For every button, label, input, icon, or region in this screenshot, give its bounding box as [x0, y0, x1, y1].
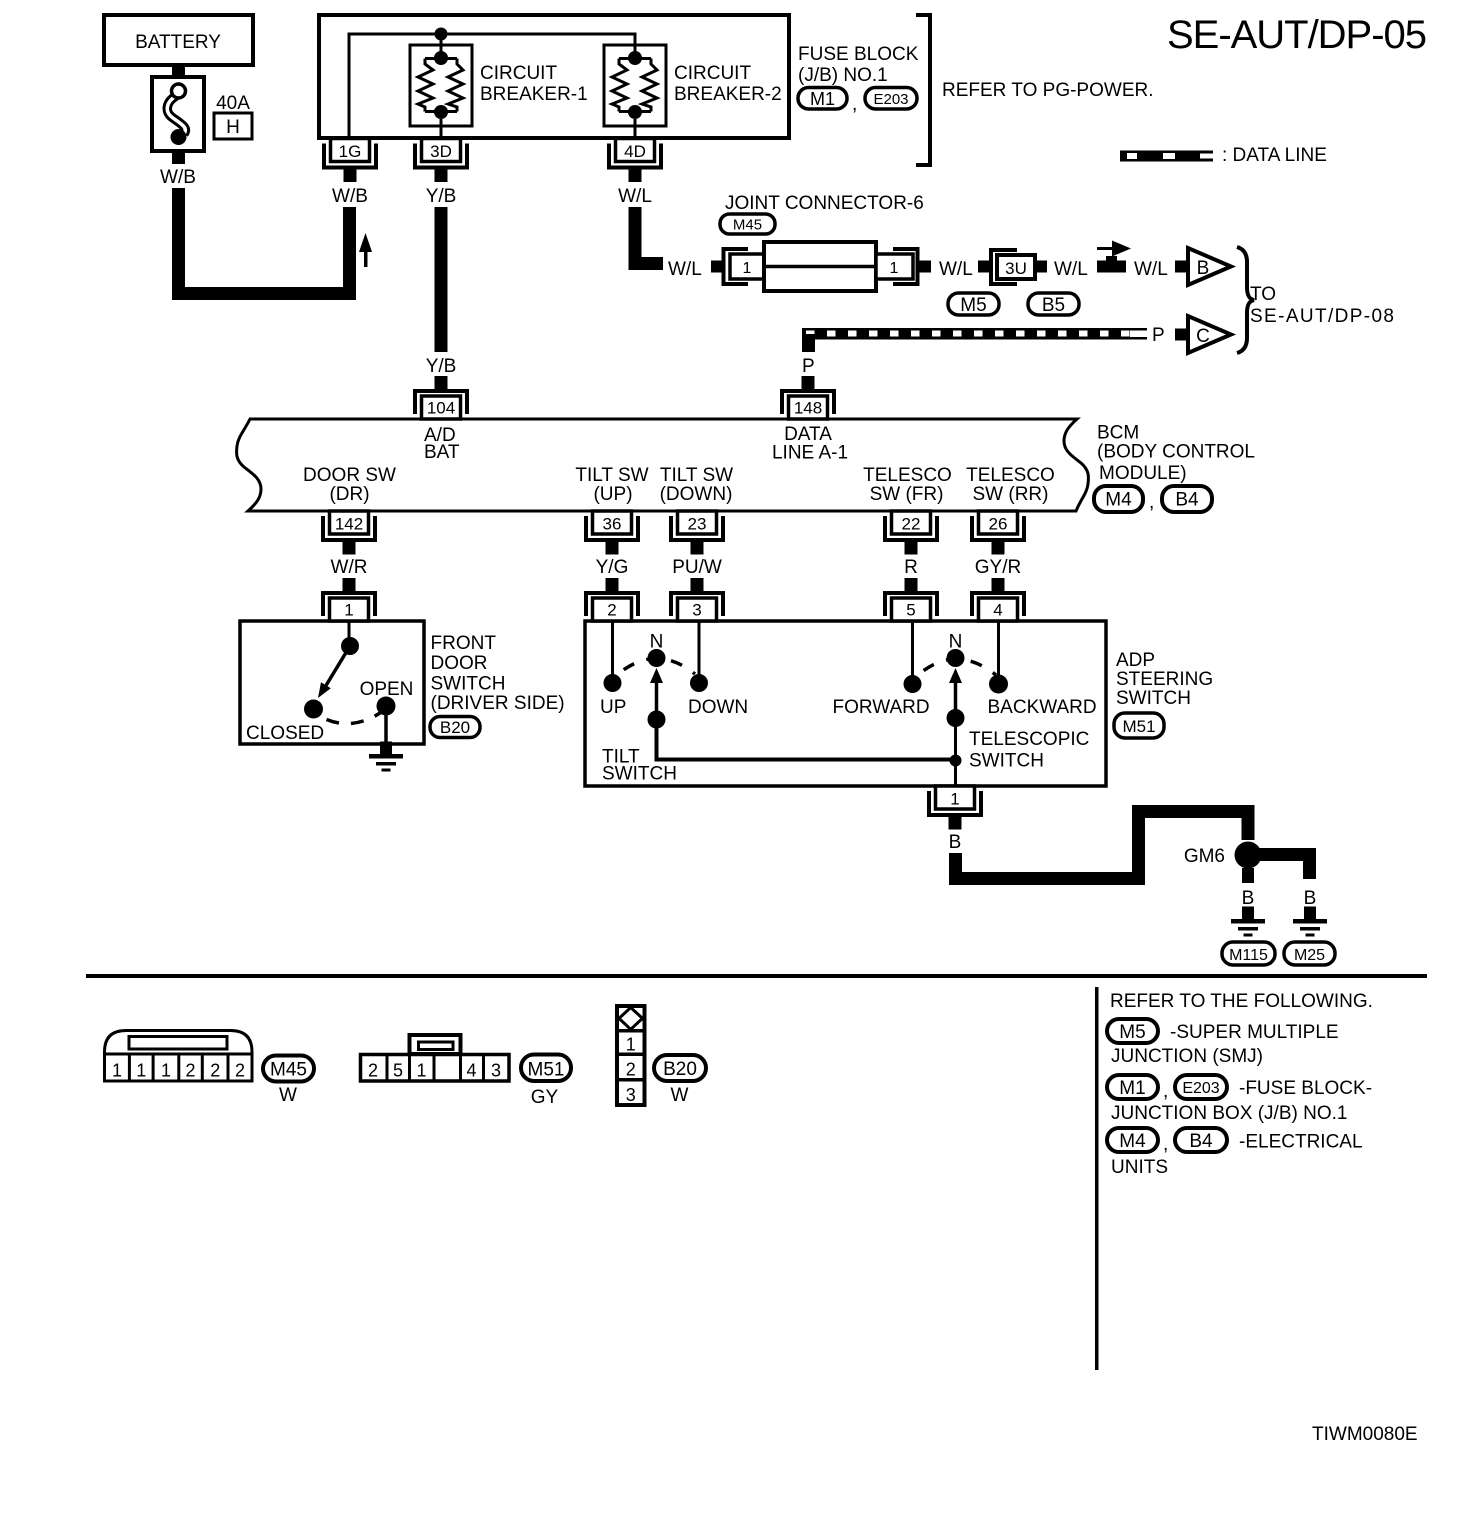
- svg-text:B4: B4: [1175, 490, 1199, 511]
- svg-text:E203: E203: [1182, 1080, 1219, 1097]
- svg-text:W/B: W/B: [332, 186, 368, 207]
- svg-text:(J/B) NO.1: (J/B) NO.1: [798, 65, 888, 86]
- svg-text:GY: GY: [531, 1087, 559, 1108]
- svg-text:5: 5: [906, 601, 915, 620]
- svg-text:W/L: W/L: [1134, 259, 1168, 280]
- svg-text:FRONT: FRONT: [431, 633, 497, 654]
- svg-text:DOOR: DOOR: [431, 653, 488, 674]
- svg-text:STEERING: STEERING: [1116, 669, 1213, 690]
- svg-text:SE-AUT/DP-05: SE-AUT/DP-05: [1167, 13, 1427, 57]
- svg-text:MODULE): MODULE): [1099, 463, 1187, 484]
- svg-text:1: 1: [950, 790, 959, 809]
- svg-text:E203: E203: [873, 91, 908, 108]
- svg-text:CLOSED: CLOSED: [246, 723, 324, 744]
- svg-text:C: C: [1196, 326, 1210, 347]
- svg-text:36: 36: [603, 515, 622, 534]
- svg-text:22: 22: [902, 515, 921, 534]
- svg-text:REFER TO THE FOLLOWING.: REFER TO THE FOLLOWING.: [1110, 991, 1373, 1012]
- svg-text:W/L: W/L: [939, 259, 973, 280]
- svg-text:M51: M51: [528, 1060, 565, 1081]
- svg-text:-SUPER MULTIPLE: -SUPER MULTIPLE: [1170, 1022, 1339, 1043]
- svg-text:,: ,: [1163, 1134, 1168, 1155]
- svg-text:,: ,: [1163, 1081, 1168, 1102]
- svg-text:SE-AUT/DP-08: SE-AUT/DP-08: [1250, 306, 1394, 327]
- svg-text:(DRIVER SIDE): (DRIVER SIDE): [431, 693, 565, 714]
- svg-text:ADP: ADP: [1116, 650, 1155, 671]
- svg-text:(BODY CONTROL: (BODY CONTROL: [1097, 442, 1255, 463]
- svg-text:M5: M5: [1119, 1022, 1145, 1043]
- svg-text:M51: M51: [1122, 717, 1155, 736]
- svg-text:W/L: W/L: [1054, 259, 1088, 280]
- svg-text:M115: M115: [1229, 947, 1268, 964]
- svg-text:W/R: W/R: [331, 557, 368, 578]
- svg-text:W/L: W/L: [618, 186, 652, 207]
- svg-text:M1: M1: [810, 89, 835, 109]
- svg-text:2: 2: [368, 1061, 378, 1081]
- svg-text:1: 1: [626, 1035, 636, 1055]
- svg-text:TIWM0080E: TIWM0080E: [1312, 1424, 1418, 1445]
- svg-text:B20: B20: [663, 1059, 697, 1080]
- svg-text:5: 5: [393, 1061, 403, 1081]
- svg-text:,: ,: [852, 94, 857, 115]
- svg-text:1: 1: [743, 260, 752, 277]
- svg-text:2: 2: [235, 1061, 245, 1081]
- svg-text:R: R: [904, 557, 918, 578]
- svg-text:W/B: W/B: [160, 167, 196, 188]
- svg-text:P: P: [802, 356, 815, 377]
- svg-text:2: 2: [210, 1061, 220, 1081]
- svg-text:1: 1: [344, 601, 353, 620]
- svg-text:M5: M5: [960, 295, 986, 316]
- svg-text:M25: M25: [1294, 947, 1325, 964]
- svg-text:23: 23: [688, 515, 707, 534]
- svg-text:SWITCH: SWITCH: [969, 751, 1044, 772]
- svg-text:B4: B4: [1189, 1131, 1213, 1152]
- svg-text:3U: 3U: [1005, 259, 1027, 278]
- svg-text:UP: UP: [600, 697, 626, 718]
- svg-text:TELESCO: TELESCO: [966, 465, 1055, 486]
- svg-text:BAT: BAT: [424, 442, 460, 463]
- svg-text:M45: M45: [733, 217, 762, 234]
- svg-text:W/L: W/L: [668, 259, 702, 280]
- svg-text:TILT SW: TILT SW: [575, 465, 648, 486]
- svg-text:SW (FR): SW (FR): [870, 484, 944, 505]
- svg-text:GM6: GM6: [1184, 846, 1225, 867]
- svg-text:Y/B: Y/B: [426, 356, 457, 377]
- svg-text:JUNCTION (SMJ): JUNCTION (SMJ): [1111, 1046, 1263, 1067]
- svg-text:DOOR SW: DOOR SW: [303, 465, 396, 486]
- svg-text:H: H: [226, 117, 240, 138]
- svg-text:JUNCTION BOX (J/B) NO.1: JUNCTION BOX (J/B) NO.1: [1111, 1103, 1347, 1124]
- svg-text:N: N: [949, 632, 963, 653]
- svg-text:TILT SW: TILT SW: [660, 465, 733, 486]
- svg-text:BCM: BCM: [1097, 423, 1139, 444]
- svg-text:3: 3: [626, 1085, 636, 1105]
- svg-text:2: 2: [185, 1061, 195, 1081]
- svg-text:3D: 3D: [430, 142, 452, 161]
- svg-text:BACKWARD: BACKWARD: [988, 697, 1097, 718]
- svg-text:2: 2: [607, 601, 616, 620]
- svg-text:26: 26: [989, 515, 1008, 534]
- svg-text:P: P: [1152, 325, 1165, 346]
- svg-text:148: 148: [794, 399, 822, 418]
- svg-text:104: 104: [427, 399, 455, 418]
- svg-text:B: B: [949, 832, 962, 853]
- svg-text:UNITS: UNITS: [1111, 1157, 1168, 1178]
- svg-text:BREAKER-2: BREAKER-2: [674, 84, 782, 105]
- svg-text:SWITCH: SWITCH: [1116, 688, 1191, 709]
- svg-text:1: 1: [416, 1061, 426, 1081]
- svg-text:REFER TO PG-POWER.: REFER TO PG-POWER.: [942, 80, 1154, 101]
- svg-text:N: N: [650, 632, 664, 653]
- svg-text:4D: 4D: [624, 142, 646, 161]
- svg-text:1G: 1G: [339, 142, 362, 161]
- svg-text:BREAKER-1: BREAKER-1: [480, 84, 588, 105]
- svg-text:,: ,: [1149, 492, 1154, 513]
- svg-text:M45: M45: [270, 1060, 307, 1081]
- svg-text:TELESCO: TELESCO: [863, 465, 952, 486]
- svg-text:PU/W: PU/W: [672, 557, 722, 578]
- svg-text:B: B: [1242, 888, 1255, 909]
- svg-text:M1: M1: [1119, 1078, 1145, 1099]
- svg-text:B: B: [1304, 888, 1317, 909]
- svg-text:4: 4: [466, 1061, 476, 1081]
- svg-text:B5: B5: [1042, 295, 1065, 316]
- svg-text:-FUSE BLOCK-: -FUSE BLOCK-: [1239, 1078, 1372, 1099]
- svg-text:M4: M4: [1105, 490, 1132, 511]
- svg-text:B20: B20: [440, 718, 470, 737]
- svg-text:Y/G: Y/G: [596, 557, 629, 578]
- svg-text:B: B: [1197, 258, 1210, 279]
- svg-text:3: 3: [692, 601, 701, 620]
- svg-text:TO: TO: [1250, 284, 1276, 305]
- svg-text:SWITCH: SWITCH: [431, 674, 506, 695]
- svg-text:2: 2: [626, 1060, 636, 1080]
- svg-text:W: W: [279, 1085, 297, 1106]
- svg-text:-ELECTRICAL: -ELECTRICAL: [1239, 1132, 1363, 1153]
- svg-text:1: 1: [112, 1061, 122, 1081]
- svg-text:40A: 40A: [216, 93, 250, 114]
- svg-text:1: 1: [161, 1061, 171, 1081]
- svg-text:LINE A-1: LINE A-1: [772, 443, 848, 464]
- svg-text:3: 3: [491, 1061, 501, 1081]
- svg-text:SW (RR): SW (RR): [973, 484, 1049, 505]
- svg-text:142: 142: [335, 515, 363, 534]
- svg-text:GY/R: GY/R: [975, 557, 1021, 578]
- svg-text:W: W: [671, 1085, 689, 1106]
- svg-text:BATTERY: BATTERY: [135, 32, 221, 53]
- svg-text:(UP): (UP): [593, 484, 632, 505]
- svg-text:OPEN: OPEN: [360, 679, 414, 700]
- svg-text:FUSE BLOCK: FUSE BLOCK: [798, 44, 919, 65]
- svg-text:M4: M4: [1119, 1131, 1146, 1152]
- svg-text:(DOWN): (DOWN): [660, 484, 733, 505]
- svg-text:FORWARD: FORWARD: [833, 697, 930, 718]
- svg-text:TELESCOPIC: TELESCOPIC: [969, 729, 1089, 750]
- svg-text:(DR): (DR): [329, 484, 369, 505]
- svg-text:JOINT CONNECTOR-6: JOINT CONNECTOR-6: [725, 193, 924, 214]
- svg-text:: DATA LINE: : DATA LINE: [1222, 145, 1327, 166]
- svg-text:1: 1: [136, 1061, 146, 1081]
- svg-text:1: 1: [890, 260, 899, 277]
- svg-text:DOWN: DOWN: [688, 697, 748, 718]
- svg-text:CIRCUIT: CIRCUIT: [674, 63, 751, 84]
- svg-text:Y/B: Y/B: [426, 186, 457, 207]
- svg-text:4: 4: [993, 601, 1002, 620]
- svg-text:SWITCH: SWITCH: [602, 764, 677, 785]
- svg-text:CIRCUIT: CIRCUIT: [480, 63, 557, 84]
